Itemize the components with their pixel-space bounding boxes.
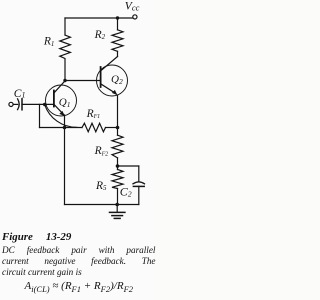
- svg-text:C1: C1: [14, 88, 26, 100]
- svg-text:Q2: Q2: [111, 74, 123, 86]
- svg-text:RF2: RF2: [94, 145, 108, 157]
- svg-text:Q1: Q1: [59, 96, 71, 108]
- svg-text:C2: C2: [120, 184, 132, 198]
- svg-text:Vcc: Vcc: [125, 1, 140, 13]
- svg-text:R1: R1: [43, 36, 55, 48]
- svg-text:R5: R5: [95, 180, 107, 192]
- svg-text:RF1: RF1: [86, 108, 100, 120]
- svg-text:R2: R2: [94, 29, 106, 41]
